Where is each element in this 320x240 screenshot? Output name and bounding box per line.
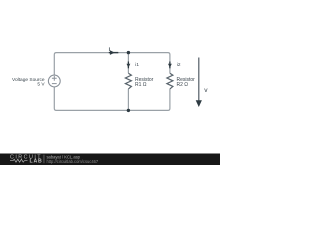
wire branch R1 top [127,53,129,74]
current arrow i on top wire [109,50,119,55]
wire bottom rail [54,87,170,111]
resistor R2 [167,73,173,89]
svg-text:LAB: LAB [30,159,43,165]
node junction top [127,51,130,54]
svg-text:i2: i2 [177,62,181,67]
svg-text:R2 Ω: R2 Ω [177,82,189,88]
footer bar [0,154,220,166]
node junction bottom [127,109,130,112]
svg-text:i1: i1 [135,62,139,67]
voltage source V1 [48,75,60,87]
svg-text:5 V: 5 V [37,82,45,88]
svg-text:http://circuitlab.com/csuc467: http://circuitlab.com/csuc467 [47,159,99,164]
resistor R1 [125,73,131,89]
CircuitLab logo wordmark [10,154,43,164]
footer divider [43,155,45,164]
wire branch R1 bottom [127,89,129,111]
svg-text:R1 Ω: R1 Ω [135,82,147,88]
voltage annotation arrow v [196,58,202,108]
current arrow i2 [168,62,172,69]
wire top rail [54,53,170,76]
current arrow i1 [127,62,131,69]
